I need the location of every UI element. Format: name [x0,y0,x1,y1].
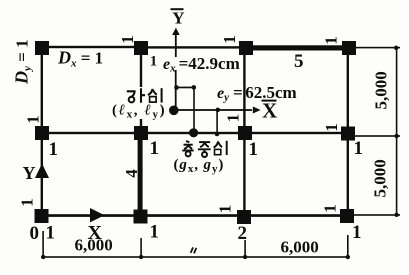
svg-text:5,000: 5,000 [372,71,391,109]
svg-text:1: 1 [322,123,341,132]
svg-text:1: 1 [224,114,243,123]
svg-text:1: 1 [322,36,341,45]
svg-text:Dy = 1: Dy = 1 [12,39,34,85]
svg-text:5,000: 5,000 [371,159,390,197]
svg-text:4: 4 [122,169,141,178]
svg-text:0: 0 [30,223,40,244]
svg-text:5: 5 [294,51,304,72]
svg-text:1: 1 [18,198,37,207]
svg-text:Dx = 1: Dx = 1 [57,48,103,70]
svg-text:X: X [262,99,277,123]
svg-text:6,000: 6,000 [281,238,319,257]
svg-text:1: 1 [150,138,160,159]
svg-text:1: 1 [249,139,259,160]
svg-text:1: 1 [354,138,364,159]
svg-text:Y: Y [172,8,184,27]
svg-text:Y: Y [23,163,36,183]
svg-text:1: 1 [150,222,160,243]
svg-text:1: 1 [118,35,137,44]
svg-text:1: 1 [216,205,235,214]
svg-text:6,000: 6,000 [75,236,113,255]
svg-text:1: 1 [46,223,56,244]
svg-text:2: 2 [238,223,248,244]
svg-text:1: 1 [352,222,362,243]
svg-text:1: 1 [220,35,239,44]
svg-text:1: 1 [49,139,59,160]
svg-text:1: 1 [150,53,158,69]
svg-text:1: 1 [24,115,43,124]
svg-text:1: 1 [320,204,339,213]
